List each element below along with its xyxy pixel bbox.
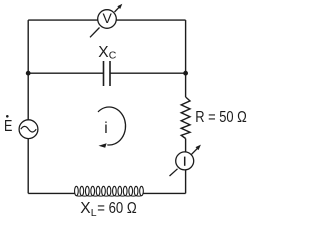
node: right junction xyxy=(183,71,188,76)
coil bottom connectors xyxy=(76,195,141,197)
current arrow i xyxy=(98,107,126,148)
wire: right side upper xyxy=(185,20,187,97)
svg-text:X: X xyxy=(80,200,91,217)
node: left junction xyxy=(26,71,31,76)
svg-text:V: V xyxy=(103,10,113,26)
svg-text:= 60 Ω: = 60 Ω xyxy=(97,200,136,217)
wire: right side lower xyxy=(185,139,187,194)
wire: left side xyxy=(27,20,29,193)
wire: middle branch left xyxy=(28,72,103,74)
capacitor XC plates xyxy=(104,61,111,86)
svg-text:i: i xyxy=(104,120,107,137)
wire: middle branch right xyxy=(110,72,186,74)
svg-text:R = 50 Ω: R = 50 Ω xyxy=(195,109,247,126)
wire: bottom right segment xyxy=(143,192,185,194)
resistor R xyxy=(181,97,190,139)
svg-text:C: C xyxy=(109,50,117,62)
voltmeter V xyxy=(90,4,122,38)
wire: bottom left segment xyxy=(28,192,75,194)
svg-text:X: X xyxy=(98,44,109,61)
AC source E xyxy=(19,120,38,139)
svg-text:E: E xyxy=(4,118,12,135)
inductor XL coil xyxy=(75,186,144,196)
svg-text:L: L xyxy=(91,207,97,219)
ammeter I xyxy=(170,145,201,176)
wire: top side xyxy=(28,19,185,21)
